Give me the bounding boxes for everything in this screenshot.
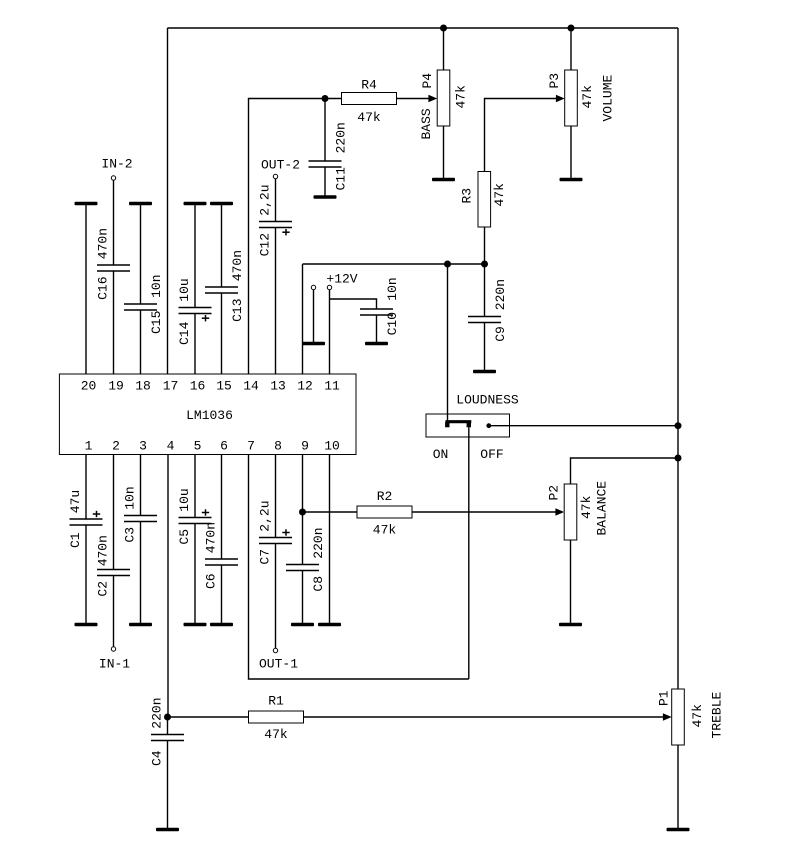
capacitor C12 [259, 222, 292, 228]
svg-text:C12: C12 [258, 233, 273, 256]
ground [210, 202, 233, 206]
terminal OUT-1 [273, 648, 277, 652]
wire R2 to P2 wiper [412, 511, 556, 513]
wire pin 9 to C8 [302, 455, 304, 565]
svg-text:C14: C14 [177, 321, 192, 345]
svg-text:C10: C10 [385, 312, 400, 335]
wire top supply bus [168, 27, 679, 29]
svg-text:15: 15 [216, 379, 232, 394]
svg-text:VOLUME: VOLUME [601, 74, 616, 121]
svg-text:12: 12 [297, 379, 313, 394]
svg-text:C15: C15 [149, 311, 164, 334]
svg-text:C2: C2 [96, 581, 111, 597]
wire IN-2 to C16 [113, 180, 115, 265]
wire pin 2 to C2 [113, 455, 115, 570]
capacitor C11 [309, 161, 342, 167]
svg-text:C4: C4 [150, 750, 165, 766]
capacitor C15 [124, 304, 157, 310]
wire C15 to pin 18 [140, 310, 142, 374]
svg-text:16: 16 [190, 379, 206, 394]
wire C11 to ground [324, 167, 326, 197]
capacitor C2 [97, 570, 130, 576]
wire node to C11 [324, 99, 326, 162]
svg-text:BASS: BASS [419, 108, 434, 139]
svg-text:220n: 220n [150, 697, 165, 728]
svg-text:OUT-1: OUT-1 [259, 657, 298, 672]
wire C2 to IN-1 [113, 576, 115, 647]
svg-text:P4: P4 [420, 73, 435, 89]
wire P1 to ground [677, 745, 679, 830]
svg-text:1: 1 [85, 439, 93, 454]
wire pin 7 to switch [249, 455, 469, 680]
wire node to R4 [325, 98, 342, 100]
switch S1 LOUDNESS box [426, 414, 510, 437]
svg-text:OUT-2: OUT-2 [261, 158, 300, 173]
node junction right bus/balance [675, 455, 682, 462]
potentiometer P4 [437, 70, 450, 126]
wire R1 to P1 wiper [304, 716, 664, 718]
wire supply rail horizontal [303, 263, 485, 265]
wire C8 to ground [302, 571, 304, 625]
svg-text:13: 13 [270, 379, 286, 394]
svg-text:10u: 10u [177, 278, 192, 301]
wire pin 4 down [167, 455, 169, 718]
svg-text:BALANCE: BALANCE [595, 481, 610, 536]
ground [559, 623, 582, 627]
wire C16 to pin 19 [113, 271, 115, 374]
wire bus to P2 [571, 458, 679, 484]
svg-text:C6: C6 [204, 573, 219, 589]
capacitor C9 [468, 317, 501, 323]
svg-text:17: 17 [163, 379, 179, 394]
svg-text:220n: 220n [333, 122, 348, 153]
wire OUT-2 to C12 [275, 179, 277, 222]
capacitor C4 [151, 735, 184, 741]
ground [75, 623, 98, 627]
svg-text:6: 6 [220, 439, 228, 454]
resistor R3 [478, 172, 491, 228]
wire node to R1 [168, 716, 249, 718]
switch contact OFF [486, 423, 491, 428]
node junction loudness feed [444, 261, 451, 268]
wire C6 to ground [221, 565, 223, 625]
wire right drop to P1 [677, 28, 679, 689]
wire C3 to ground [140, 522, 142, 625]
wire C14 to pin 16 [194, 314, 196, 375]
ground [314, 195, 337, 199]
terminal OUT-2 [273, 174, 277, 178]
wiper arrow into P4 [428, 95, 437, 103]
node junction bus/P3 [568, 25, 575, 32]
wire branch to C10 [330, 299, 377, 309]
ground [560, 178, 583, 182]
svg-text:10: 10 [324, 439, 340, 454]
svg-text:47k: 47k [580, 85, 595, 109]
wire bus to P3 [570, 28, 572, 70]
svg-text:8: 8 [274, 439, 282, 454]
svg-text:10n: 10n [149, 274, 164, 297]
svg-text:C11: C11 [333, 167, 348, 191]
potentiometer P2 [564, 484, 577, 540]
node junction pin9/R2 [299, 509, 306, 516]
wire P3 to ground [570, 126, 572, 180]
wire P4 to ground [443, 126, 445, 180]
svg-text:C16: C16 [96, 276, 111, 299]
svg-text:R1: R1 [268, 694, 284, 709]
wire left drop to pin 17 [167, 28, 169, 374]
svg-text:470n: 470n [204, 522, 219, 553]
svg-text:2,2u: 2,2u [258, 184, 273, 215]
svg-text:OFF: OFF [480, 447, 503, 462]
wire C1 to ground [85, 525, 87, 625]
capacitor C16 [97, 265, 130, 271]
wire C10 to ground [376, 315, 378, 344]
svg-text:470n: 470n [96, 535, 111, 566]
svg-text:220n: 220n [311, 527, 326, 558]
svg-text:470n: 470n [96, 228, 111, 259]
svg-text:9: 9 [301, 439, 309, 454]
wire node to C9 [484, 264, 486, 317]
svg-text:10u: 10u [177, 488, 192, 511]
wire pin 8 to C7 [275, 455, 277, 538]
wire C13 to pin 15 [221, 293, 223, 374]
capacitor C1 [70, 519, 103, 525]
ground [473, 370, 496, 374]
ground [318, 623, 341, 627]
svg-text:2: 2 [112, 439, 120, 454]
capacitor C7 [259, 538, 292, 544]
wire pin 12 up to supply node [302, 264, 304, 374]
svg-text:ON: ON [433, 447, 449, 462]
capacitor C5 [179, 518, 212, 524]
C1 polarity + [93, 511, 100, 517]
wire pin 5 to C5 [194, 455, 196, 518]
svg-text:10n: 10n [385, 277, 400, 300]
svg-text:470n: 470n [230, 250, 245, 281]
ground [75, 202, 98, 206]
node junction bus/P4 [440, 25, 447, 32]
wire R3 to P3 wiper [485, 99, 557, 172]
node junction R3/C9 [481, 261, 488, 268]
wire node to C4 [167, 717, 169, 735]
node junction R4/C11 [322, 95, 329, 102]
terminal IN-1 [111, 647, 115, 651]
svg-text:P1: P1 [657, 690, 672, 706]
ground [291, 623, 314, 627]
wiper arrow into P3 [556, 95, 565, 103]
switch arm [446, 420, 472, 423]
op-amp U1 LM1036 (IC box) [59, 374, 356, 455]
ground [302, 342, 325, 346]
C5 polarity + [202, 509, 209, 515]
svg-text:47k: 47k [453, 85, 468, 109]
svg-text:14: 14 [243, 379, 259, 394]
wire ground to C13 [221, 204, 223, 288]
wire switch middle contact down [468, 427, 470, 679]
wire C12 to pin 13 [275, 228, 277, 375]
node junction right bus/OFF [675, 422, 682, 429]
switch contact left [445, 422, 449, 428]
wire ground to C14 [194, 204, 196, 308]
svg-text:47k: 47k [373, 523, 397, 538]
capacitor C13 [205, 287, 238, 293]
svg-text:220n: 220n [493, 279, 508, 310]
ground [365, 342, 388, 346]
wire pin 1 to C1 [85, 455, 87, 520]
svg-text:TREBLE: TREBLE [710, 691, 725, 738]
ground [667, 828, 690, 832]
svg-text:20: 20 [81, 379, 97, 394]
wire R4 to P4 wiper [397, 98, 429, 100]
ground [129, 623, 152, 627]
wire ground to C15 [140, 204, 142, 305]
capacitor C10 [360, 309, 393, 315]
switch contact middle [467, 422, 471, 428]
wire node to switch pole [447, 264, 449, 425]
svg-text:C8: C8 [311, 576, 326, 592]
wire pin 3 to C3 [140, 455, 142, 516]
ground [210, 623, 233, 627]
terminal power ground [311, 285, 315, 289]
resistor R2 [357, 506, 412, 518]
wire C5 to ground [194, 524, 196, 625]
svg-text:18: 18 [135, 379, 151, 394]
svg-text:R2: R2 [377, 489, 393, 504]
resistor R4 [342, 93, 397, 105]
svg-text:C9: C9 [493, 326, 508, 342]
wire pin 10 to ground [329, 455, 331, 625]
svg-text:47u: 47u [68, 490, 83, 513]
wire bus to P4 [443, 28, 445, 70]
potentiometer P3 [565, 70, 578, 126]
capacitor C6 [205, 559, 238, 565]
svg-text:+12V: +12V [326, 272, 357, 287]
svg-text:LM1036: LM1036 [186, 408, 233, 423]
wire C4 to ground [167, 741, 169, 830]
svg-text:47k: 47k [357, 110, 381, 125]
C12 polarity + [282, 229, 289, 235]
svg-text:2,2u: 2,2u [258, 500, 273, 531]
svg-text:C3: C3 [123, 527, 138, 543]
ground [432, 178, 455, 182]
C7 polarity + [282, 529, 289, 535]
terminal IN-2 [111, 176, 115, 180]
svg-text:R3: R3 [460, 188, 475, 204]
svg-text:C7: C7 [258, 549, 273, 565]
svg-text:47k: 47k [492, 183, 507, 207]
svg-text:10n: 10n [123, 486, 138, 509]
wire +12V to pin 11 [329, 290, 331, 374]
svg-text:R4: R4 [361, 78, 377, 93]
svg-text:P3: P3 [547, 73, 562, 89]
svg-text:IN-1: IN-1 [99, 657, 130, 672]
wire P2 to ground [570, 540, 572, 625]
svg-text:C13: C13 [230, 298, 245, 321]
wire pin 14 up to R4 node [249, 99, 326, 375]
resistor R1 [249, 711, 304, 723]
capacitor C3 [124, 516, 157, 522]
wire C9 to ground [484, 323, 486, 372]
wire pin 20 to ground [85, 204, 87, 375]
ground [184, 202, 207, 206]
svg-text:4: 4 [167, 439, 175, 454]
svg-text:5: 5 [194, 439, 202, 454]
wire C7 to OUT-1 [275, 544, 277, 649]
wire power ground terminal down [313, 290, 315, 344]
svg-text:47k: 47k [579, 495, 594, 519]
svg-text:47k: 47k [690, 704, 705, 728]
svg-text:C1: C1 [68, 532, 83, 548]
ground [129, 202, 152, 206]
wire switch OFF to right bus [489, 425, 678, 427]
potentiometer P1 [672, 689, 685, 745]
wiper arrow into P2 [555, 508, 564, 516]
svg-text:C5: C5 [177, 529, 192, 545]
svg-text:IN-2: IN-2 [101, 157, 132, 172]
capacitor C14 [179, 308, 212, 314]
svg-text:47k: 47k [264, 727, 288, 742]
wire node to R3 [484, 227, 486, 264]
node junction pin4/R1/C4 [164, 714, 171, 721]
ground [156, 828, 179, 832]
svg-text:7: 7 [247, 439, 255, 454]
ground [184, 623, 207, 627]
C14 polarity + [202, 315, 209, 321]
svg-text:11: 11 [324, 379, 340, 394]
svg-text:3: 3 [139, 439, 147, 454]
terminal +12V [327, 285, 331, 289]
capacitor C8 [286, 565, 319, 571]
svg-text:19: 19 [108, 379, 124, 394]
wire pin 9 node to R2 [303, 511, 358, 513]
wire pin 6 to C6 [221, 455, 223, 560]
wiper arrow into P1 [663, 713, 672, 721]
svg-text:LOUDNESS: LOUDNESS [456, 393, 519, 408]
svg-text:P2: P2 [547, 485, 562, 501]
